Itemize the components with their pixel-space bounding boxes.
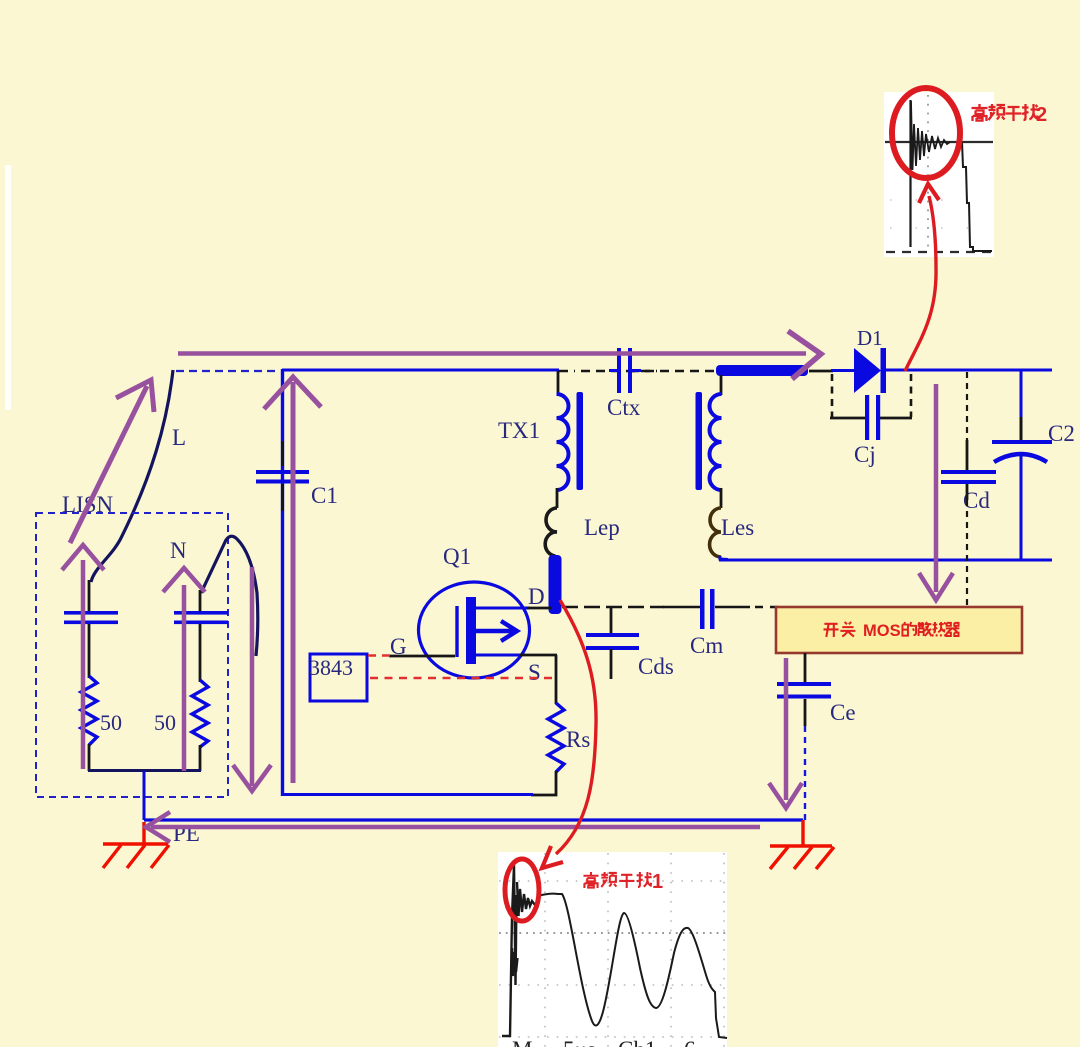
wire LISN right lower black <box>199 745 202 771</box>
arrow purple up L branch <box>62 545 104 769</box>
transistor Q1 source lead <box>476 654 522 657</box>
scope1 main wave <box>537 894 727 1038</box>
svg-text:C2: C2 <box>1048 421 1075 446</box>
wire secondary lower stub <box>720 488 723 508</box>
heatsink text 开关MOS的散热器 <box>823 622 855 637</box>
wire Les to bottom bus <box>720 556 728 560</box>
wire Cd black solid upper <box>966 440 969 470</box>
LISN dashed box <box>36 513 228 797</box>
node Cj dashed box right <box>910 374 913 417</box>
wire red dashed gate <box>368 654 392 656</box>
svg-text:5μs: 5μs <box>563 1037 596 1047</box>
svg-text:TX1: TX1 <box>498 418 540 443</box>
svg-text:3843: 3843 <box>309 655 353 680</box>
svg-text:Cds: Cds <box>638 654 674 679</box>
wire PE bus blue <box>144 818 803 821</box>
wire thick blue bar (secondary top lead) <box>716 365 808 376</box>
svg-text:Ch1: Ch1 <box>618 1037 656 1047</box>
SCOPE1 (bottom waveform image) <box>498 852 727 1047</box>
heatsink box 开关MOS的散热器 <box>776 607 1022 653</box>
node Cj dashed box left <box>831 374 834 417</box>
resistor Rs <box>548 703 564 772</box>
capacitor LISN left <box>64 611 118 624</box>
wire top bus right of D1 <box>885 369 1052 372</box>
ic 3843 box <box>310 654 367 701</box>
ANNOTATIONS (purple arrows, red arrows/text) <box>62 88 1047 921</box>
scope1 background <box>498 852 727 1047</box>
wire Ce lower black <box>804 699 807 726</box>
capacitor Ctx <box>609 348 641 393</box>
transformer TX1 secondary stub top <box>720 375 723 395</box>
transformer TX1 secondary core bar <box>696 392 703 490</box>
wire LISN to PE stub <box>143 771 146 820</box>
wire secondary bottom bus <box>719 559 1052 562</box>
svg-text:Cm: Cm <box>690 633 723 658</box>
resistor 50 left <box>81 676 97 745</box>
svg-text:MOS: MOS <box>863 622 901 640</box>
capacitor Ce <box>777 682 831 699</box>
white strip left edge <box>5 165 11 410</box>
node Cd dashed upper <box>966 372 968 442</box>
svg-text:Les: Les <box>721 515 754 540</box>
wire Cds lower black <box>610 649 613 679</box>
wire drain lead black <box>527 607 552 610</box>
wire black segment to D1 <box>809 370 833 373</box>
scope2 grid dotted vertical <box>927 95 929 253</box>
red arrow drain to scope1 <box>542 600 596 868</box>
wire Cds upper black <box>610 607 613 634</box>
wire top dashed black segment left of Ctx <box>559 370 657 373</box>
svg-text:6: 6 <box>684 1037 696 1047</box>
wire LISN left branch upper black <box>88 580 91 612</box>
scope1 ringing blob <box>517 882 538 916</box>
svg-text:Rs: Rs <box>566 727 590 752</box>
wire LISN bottom <box>88 769 201 772</box>
svg-text:L: L <box>172 425 186 450</box>
inductor Lep <box>545 508 557 556</box>
scope2 pulse edge <box>909 100 911 247</box>
capacitor Cj <box>865 395 880 440</box>
scope2 baseline trace <box>885 141 993 143</box>
red text 高频干扰1 <box>583 872 651 888</box>
scope1 center gridline <box>499 932 727 934</box>
wire Cj horizontal black <box>830 417 912 420</box>
scope2 ringing <box>911 101 950 170</box>
wire main loop bottom <box>282 793 533 796</box>
transistor Q1 arrow <box>476 621 517 641</box>
wire top dashed black segment right of Ctx <box>630 370 718 373</box>
wire C2 branch lower <box>1020 452 1023 561</box>
arrow purple left PE <box>146 812 760 842</box>
scope1 grid horizontal dotted <box>499 881 727 1037</box>
wire LISN left lower black <box>88 744 91 771</box>
svg-text:Ce: Ce <box>830 700 856 725</box>
arrow purple down x252 <box>233 567 271 791</box>
wire drain thick bar <box>549 555 562 614</box>
capacitor Cm <box>700 589 715 629</box>
svg-text:C1: C1 <box>311 483 338 508</box>
SCOPE2 (top-right waveform image) <box>884 92 994 257</box>
red text 高频干扰2 <box>972 104 1039 121</box>
wire L curve <box>91 370 173 582</box>
red ellipse scope2 <box>892 88 960 178</box>
svg-text:50: 50 <box>154 710 176 735</box>
MAIN CIRCUIT <box>36 326 1075 869</box>
svg-text:Ctx: Ctx <box>607 395 641 420</box>
wire heatsink to Ce black <box>804 653 807 683</box>
wire dashed blue top-left <box>176 370 280 372</box>
wire C1 black segment lower <box>281 484 284 511</box>
diode D1 <box>854 348 886 393</box>
arrow purple up N branch <box>163 568 205 771</box>
wire LISN right mid black <box>199 624 202 682</box>
wire Cm solid left <box>663 606 700 609</box>
wire main loop left <box>281 369 284 796</box>
wire red dashed source <box>370 677 556 679</box>
ground right <box>770 820 834 869</box>
ground PE <box>103 822 169 868</box>
node Cd dashed lower to heatsink <box>966 500 968 606</box>
scope2 bottom dashes <box>886 251 992 253</box>
wire Rs bottom black <box>531 771 556 795</box>
wire N curve <box>201 536 258 656</box>
scope2 falling step <box>958 142 992 251</box>
transistor Q1 drain lead <box>476 607 530 610</box>
capacitor C2 <box>992 440 1052 462</box>
scope1 spike <box>502 865 517 1036</box>
wire C1 black segment upper <box>281 441 284 466</box>
arrow purple down D1 node <box>919 384 953 600</box>
transistor Q1 circle <box>419 582 530 678</box>
svg-text:Cj: Cj <box>854 442 876 467</box>
wire primary lower stub <box>556 488 559 508</box>
wire LISN left mid black <box>88 624 91 678</box>
wire C2 branch upper <box>1020 370 1023 419</box>
wire Ce dashed blue to ground <box>804 726 806 820</box>
svg-text:D: D <box>528 584 545 609</box>
capacitor LISN right <box>174 611 228 624</box>
wire Cm dashed left <box>562 606 664 609</box>
svg-text:50: 50 <box>100 710 122 735</box>
scope2 background <box>884 92 994 257</box>
capacitor C1 <box>256 470 309 484</box>
inductor Les <box>710 508 721 557</box>
wire source vertical black <box>555 655 558 704</box>
wire Cm solid right <box>715 606 750 609</box>
inductor TX1 primary winding <box>557 394 569 490</box>
svg-text:N: N <box>170 538 187 563</box>
wire Cd black solid lower <box>966 484 969 500</box>
wire gate black <box>389 655 455 658</box>
svg-text:D1: D1 <box>857 326 883 350</box>
red arrow D1 to scope2 <box>905 184 939 371</box>
scope1 ringing blob2 <box>512 948 518 976</box>
svg-text:M: M <box>512 1037 532 1047</box>
svg-text:Lep: Lep <box>584 515 620 540</box>
wire blue segment to D1 <box>831 369 856 372</box>
wire Cm dashed right <box>755 606 778 609</box>
scope1 grid vertical dotted <box>545 853 724 1047</box>
arrow purple top bus <box>178 331 821 379</box>
wire C2 branch black segment <box>1020 417 1023 441</box>
arrow purple diagonal LISN <box>70 380 154 543</box>
capacitor Cds <box>586 633 639 650</box>
inductor TX1 secondary winding <box>710 394 722 490</box>
wire source lead black <box>520 654 557 657</box>
red ellipse scope1 <box>505 859 539 921</box>
svg-text:S: S <box>528 660 541 685</box>
svg-text:2: 2 <box>1036 104 1047 126</box>
capacitor Cd <box>941 470 996 484</box>
transformer TX1 primary core bar <box>577 392 584 490</box>
transformer TX1 primary stub top <box>557 371 560 394</box>
scope2 grid dots <box>890 200 990 228</box>
arrow purple down Ce <box>769 658 802 808</box>
resistor 50 right <box>192 680 208 747</box>
wire top bus blue left segment <box>282 369 559 372</box>
svg-text:1: 1 <box>652 871 663 893</box>
arrow purple up C1 <box>264 377 321 783</box>
transistor Q1 gate plate <box>455 606 458 657</box>
transistor Q1 channel bar <box>466 597 476 664</box>
wire LISN right branch upper black <box>199 590 202 612</box>
svg-text:Q1: Q1 <box>443 544 471 569</box>
